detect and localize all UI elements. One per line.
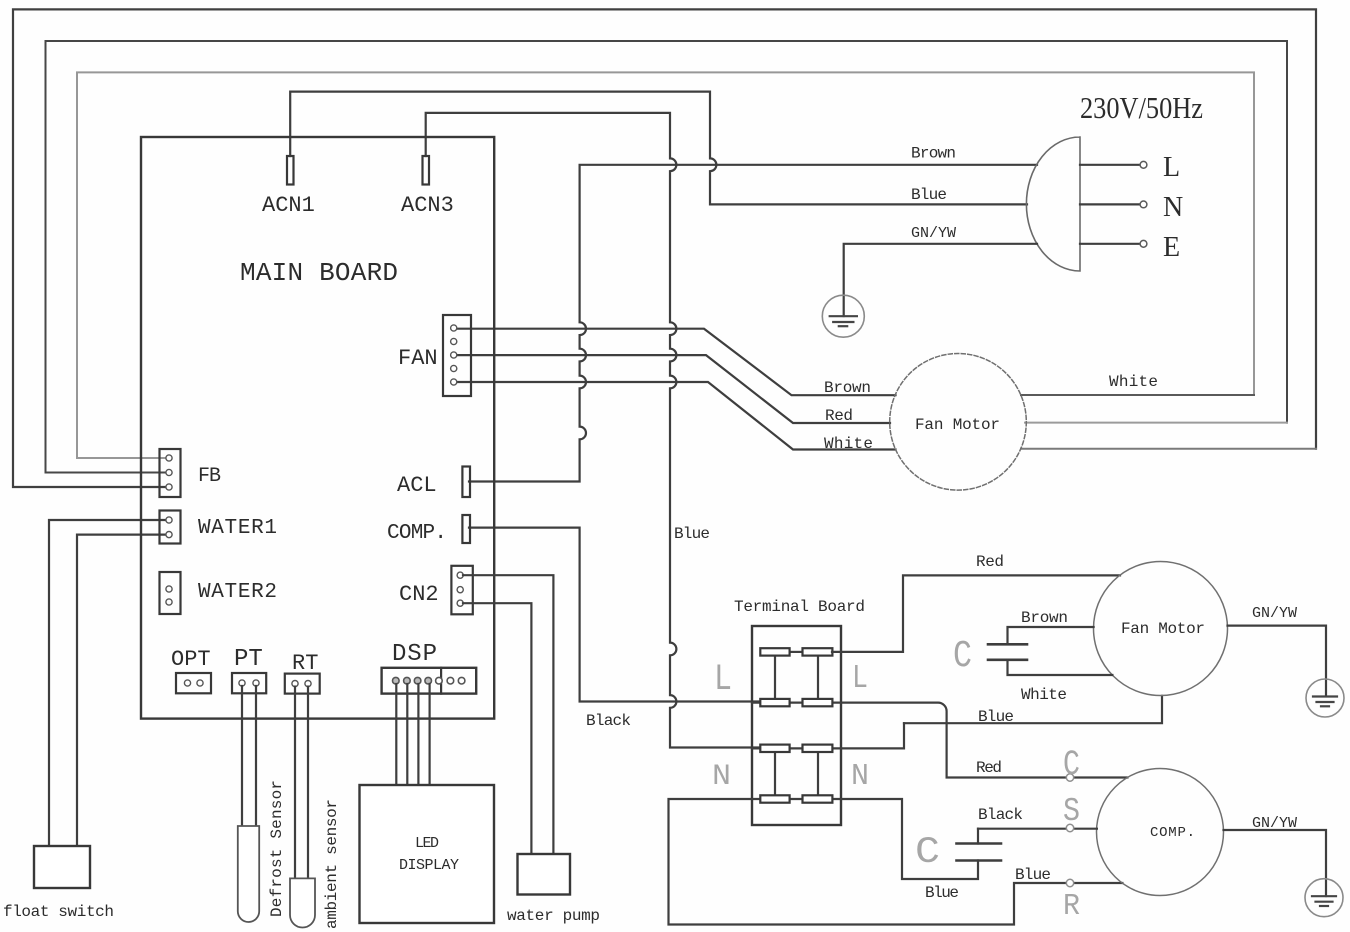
wire: COMP to terminal board row2 (Black) (469, 528, 774, 702)
svg-text:Defrost Sensor: Defrost Sensor (268, 780, 286, 917)
svg-text:WATER2: WATER2 (198, 581, 277, 604)
svg-text:N: N (851, 759, 869, 794)
svg-text:Red: Red (976, 759, 1002, 777)
terminal board row4 wire across (752, 798, 841, 800)
svg-text:L: L (714, 659, 732, 701)
ground symbol COMP (1305, 879, 1343, 917)
wire: WATER1 pin1 to float switch (49, 520, 168, 846)
svg-text:ACN3: ACN3 (401, 193, 454, 218)
svg-text:Black: Black (586, 712, 631, 730)
svg-text:Terminal Board: Terminal Board (734, 598, 865, 616)
svg-text:Red: Red (976, 553, 1004, 571)
Fan Motor 1 circle (890, 354, 1027, 491)
svg-text:E: E (1163, 232, 1180, 263)
terminal board rectangle (752, 626, 841, 825)
wire: ACL up to plug L (Brown) (469, 165, 1037, 482)
wire: ACN3 down to terminal board row3 (Blue vertical) (426, 113, 774, 748)
LED DISPLAY box (360, 785, 495, 923)
wire: plug E to ground (GN/YW) (844, 244, 1037, 316)
connector PT (232, 673, 266, 693)
connector ACN3 (423, 156, 430, 185)
main board rectangle (141, 137, 494, 719)
connector FB (160, 449, 181, 497)
svg-text:PT: PT (234, 646, 263, 673)
svg-text:C: C (953, 635, 972, 678)
svg-text:C: C (1063, 745, 1080, 785)
connector WATER2 (160, 572, 181, 614)
wire: terminal row1 right to Fan Motor 2 (Red) (832, 575, 1120, 652)
svg-text:Blue: Blue (1015, 866, 1051, 884)
svg-text:ambient sensor: ambient sensor (323, 799, 341, 929)
terminal bars row1 (760, 648, 832, 803)
capacitor C1 top plate (988, 643, 1027, 646)
terminal board row2 wire across (752, 701, 841, 703)
wire: FAN pin1 to Fan Motor (Brown) (457, 329, 896, 396)
svg-text:CN2: CN2 (399, 582, 439, 607)
float switch box (34, 846, 90, 888)
svg-text:FB: FB (198, 465, 221, 488)
wire: FB pin1 to Fan Motor white (light outer loop 3) (77, 72, 1254, 458)
terminal board column links (775, 656, 818, 796)
svg-text:Blue: Blue (978, 708, 1014, 726)
plug pin L wire (1080, 164, 1140, 166)
svg-text:DSP: DSP (392, 641, 437, 668)
connector CN2 (451, 566, 472, 615)
svg-text:Fan Motor: Fan Motor (915, 416, 1000, 434)
plug pin N wire (1080, 203, 1140, 205)
capacitor C2 bottom plate (957, 859, 1002, 862)
connector OPT (176, 673, 211, 693)
wire: Black to S pin (978, 828, 1097, 830)
ground symbol below plug (822, 295, 864, 337)
svg-text:float switch: float switch (3, 903, 114, 921)
ground symbol fan motor 2 (1306, 679, 1344, 717)
svg-text:WATER1: WATER1 (198, 517, 277, 540)
connector WATER1 (160, 511, 181, 544)
svg-text:GN/YW: GN/YW (911, 225, 956, 242)
wire: FB pin2 loop 2 (46, 41, 1288, 473)
connector FAN (443, 315, 471, 396)
svg-text:White: White (824, 435, 873, 453)
wire: Blue to Fan Motor 2 bottom (904, 696, 1162, 723)
svg-text:C: C (915, 832, 940, 874)
wire: Fan Motor right White segment (1021, 394, 1254, 396)
svg-text:COMP.: COMP. (387, 522, 447, 545)
wires: DSP to LED DISPLAY (396, 684, 429, 785)
svg-text:Blue: Blue (925, 884, 959, 902)
wire: Fan Motor 2 to ground (GN/YW) (1228, 626, 1327, 696)
wire: terminal row4 left to bottom rail and R pin (669, 799, 1123, 925)
wire: capacitor C1 to Fan Motor 2 White (1008, 660, 1113, 675)
svg-text:MAIN BOARD: MAIN BOARD (240, 258, 398, 288)
terminal board row1 link (790, 651, 803, 653)
plug pin circles (1140, 161, 1147, 168)
svg-text:FAN: FAN (398, 346, 438, 371)
svg-text:DISPLAY: DISPLAY (399, 857, 459, 874)
wire: CN2 pin1 to water pump (463, 575, 553, 854)
plug 230V/50Hz body (1026, 137, 1080, 271)
terminal pin circles C S R (1066, 774, 1073, 781)
ambient sensor capsule (290, 878, 315, 927)
wires: PT to defrost sensor (242, 686, 256, 826)
svg-text:Blue: Blue (911, 186, 947, 204)
wire: ACN1 to plug N (Blue) (290, 92, 1027, 205)
wire: FB pin3 outer loop 1 (13, 9, 1316, 487)
svg-text:N: N (1163, 192, 1183, 223)
wires: RT to ambient sensor (295, 687, 308, 879)
svg-text:ACN1: ACN1 (262, 193, 315, 218)
wire: C pin to COMP circle (1074, 776, 1127, 778)
svg-text:L: L (1163, 152, 1180, 183)
Fan Motor 2 circle (1094, 562, 1228, 696)
wire: COMP to ground (GN/YW) (1224, 830, 1327, 896)
svg-text:ACL: ACL (397, 473, 437, 498)
connector COMP (462, 515, 470, 543)
connector ACN1 (287, 156, 294, 185)
wire: CN2 pin3 to water pump (463, 603, 531, 854)
svg-text:Fan Motor: Fan Motor (1121, 620, 1205, 638)
wire: terminal row3 right up to Blue wire (841, 723, 904, 748)
plug pin E wire (1080, 243, 1140, 245)
svg-text:GN/YW: GN/YW (1252, 605, 1297, 622)
svg-text:L: L (852, 660, 868, 697)
svg-text:White: White (1109, 373, 1158, 391)
terminal board row3 wire across (752, 747, 841, 749)
svg-text:GN/YW: GN/YW (1252, 815, 1297, 832)
svg-text:White: White (1021, 686, 1067, 704)
capacitor C2 top plate (957, 842, 1002, 845)
wire: terminal row4 right to capacitor C2 (841, 799, 978, 879)
wire: FAN pin5 to Fan Motor (White) (457, 382, 896, 450)
svg-text:S: S (1063, 793, 1080, 830)
svg-text:Brown: Brown (1021, 609, 1068, 627)
svg-text:R: R (1063, 889, 1080, 924)
capacitor C1 bottom plate (988, 658, 1027, 661)
svg-text:Brown: Brown (911, 145, 956, 163)
wire: Fan Motor right middle segment (1025, 422, 1287, 424)
svg-text:LED: LED (415, 835, 439, 852)
wire: capacitor C1 to Fan Motor 2 Brown (1008, 627, 1094, 644)
wire: terminal row2 right jog down to Blue and COMP C (Red) (841, 703, 1066, 778)
svg-text:Blue: Blue (674, 525, 710, 543)
wire: Fan Motor right lower segment (1021, 448, 1316, 450)
COMP motor circle (1097, 769, 1224, 896)
svg-text:Red: Red (825, 407, 853, 425)
svg-text:N: N (712, 760, 731, 794)
svg-text:OPT: OPT (171, 647, 211, 672)
svg-text:230V/50Hz: 230V/50Hz (1080, 90, 1203, 125)
wire: WATER1 pin2 to float switch (77, 535, 168, 846)
svg-text:RT: RT (292, 651, 318, 676)
wire: FAN pin3 to Fan Motor (Red) (457, 355, 890, 423)
connector RT (285, 674, 320, 694)
svg-text:Brown: Brown (824, 379, 871, 397)
connector ACL (462, 467, 470, 498)
connector DSP (382, 668, 477, 694)
wire: Black wire down to capacitor C2 (977, 829, 979, 844)
svg-text:Black: Black (978, 806, 1023, 824)
svg-text:water pump: water pump (507, 907, 600, 925)
text labels (171, 193, 454, 676)
water pump box (518, 854, 571, 895)
svg-text:COMP.: COMP. (1150, 825, 1195, 841)
defrost sensor capsule (238, 826, 259, 922)
